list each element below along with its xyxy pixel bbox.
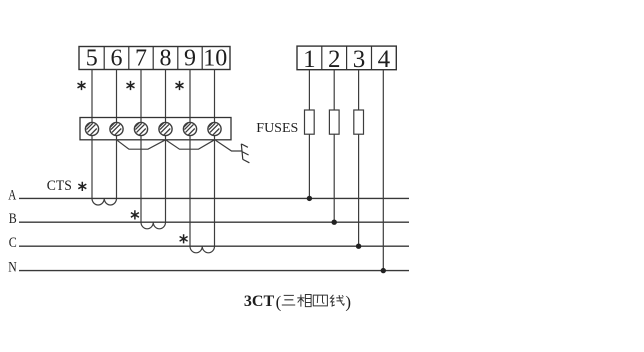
svg-text:(: ( (276, 292, 282, 311)
caption character xiang (phase) (297, 295, 311, 307)
svg-text:B: B (9, 211, 17, 227)
polarity mark terminal 9 (176, 81, 184, 90)
neutral N line (19, 270, 409, 272)
svg-text:7: 7 (135, 46, 147, 72)
wire fuse F2 to phase B (333, 134, 335, 222)
svg-text:A: A (8, 187, 16, 203)
screw terminal strip outline (80, 118, 231, 140)
junction phase A (307, 196, 312, 201)
wire screw1 down to phase A (91, 136, 93, 199)
terminal block 1-4 outline (297, 46, 396, 70)
screw terminal 2 (110, 122, 123, 135)
common S2 link wire terminals 6-8 (117, 140, 166, 149)
wire terminal6 to screw2 (116, 70, 118, 123)
ground (241, 144, 249, 163)
terminal block 1-4 cell dividers (322, 46, 372, 70)
svg-text:3CT: 3CT (244, 293, 275, 310)
wire screw6 down to phase C (214, 136, 216, 247)
wire screw5 down to phase C (189, 136, 191, 247)
svg-text:): ) (345, 292, 351, 311)
wire to earth (216, 140, 242, 151)
terminal block 5-10 cell dividers (104, 47, 202, 70)
screw terminal 4 (159, 122, 172, 135)
wire terminal9 to screw5 (189, 70, 191, 123)
terminal block 5-10 outline (79, 47, 230, 70)
svg-text:10: 10 (203, 46, 227, 72)
wire terminal2 to fuse F2 (333, 70, 335, 110)
junction neutral N (381, 268, 386, 273)
wire terminal8 to screw4 (165, 70, 167, 123)
caption character xian (wire) (330, 295, 344, 306)
wire terminal5 to screw1 (91, 70, 93, 123)
polarity mark CT C (180, 234, 188, 243)
polarity mark CT A (78, 182, 86, 191)
phase A line (19, 197, 409, 199)
svg-text:5: 5 (86, 46, 98, 72)
phase C line (19, 245, 409, 247)
screw terminal 1 (85, 122, 98, 135)
svg-text:4: 4 (378, 46, 391, 73)
screw terminal 5 (183, 122, 196, 135)
caption character si (four) (313, 295, 327, 306)
svg-text:3: 3 (353, 46, 366, 73)
wire screw2 down to phase A (116, 136, 118, 199)
wire terminal7 to screw3 (140, 70, 142, 123)
svg-text:CTS: CTS (47, 178, 72, 194)
wire terminal4 to neutral N (382, 70, 384, 271)
wire fuse F1 to phase A (308, 134, 310, 198)
caption character san (three) (282, 295, 295, 305)
fuse F1 (305, 110, 315, 134)
wire screw4 down to phase B (165, 136, 167, 223)
svg-text:1: 1 (303, 46, 316, 73)
junction phase C (356, 244, 361, 249)
svg-text:FUSES: FUSES (256, 121, 298, 136)
polarity mark terminal 5 (78, 81, 86, 90)
polarity mark terminal 7 (127, 81, 135, 90)
phase B line (19, 221, 409, 223)
wire fuse F3 to phase C (358, 134, 360, 246)
wire screw3 down to phase B (140, 136, 142, 223)
fuse F3 (354, 110, 364, 134)
junction phase B (332, 220, 337, 225)
svg-text:N: N (8, 260, 17, 276)
svg-text:8: 8 (160, 46, 172, 72)
CT coil on phase C (190, 246, 215, 253)
polarity mark CT B (131, 210, 139, 219)
screw terminal 3 (134, 122, 147, 135)
wire terminal3 to fuse F3 (358, 70, 360, 110)
fuse F2 (329, 110, 339, 134)
wire terminal10 to screw6 (214, 70, 216, 123)
screw terminal 6 (208, 122, 221, 135)
common S2 link wire terminals 8-10 (166, 140, 215, 149)
svg-text:9: 9 (184, 46, 196, 72)
CT coil on phase B (141, 222, 166, 229)
svg-text:C: C (9, 235, 17, 251)
wire terminal1 to fuse F1 (308, 70, 310, 110)
CT coil on phase A (92, 198, 117, 205)
svg-text:2: 2 (328, 46, 341, 73)
svg-text:6: 6 (111, 46, 123, 72)
